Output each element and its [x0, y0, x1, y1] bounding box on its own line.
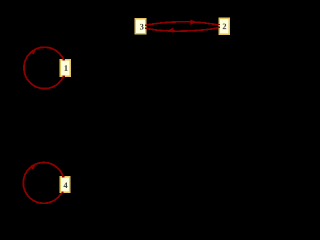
arrowhead of self-loop on node 1 [30, 49, 37, 55]
wire notch: circle 4 over node 4 bottom border [61, 191, 63, 193]
wire notch: circle 1 over node 1 bottom border [63, 75, 65, 77]
wire: edge 2 to 3 (bottom arc) [141, 26, 225, 31]
node 2 [219, 18, 230, 35]
node 4 [59, 176, 70, 193]
wire: self-loop edge on node 1 [24, 47, 65, 88]
arrowhead of edge 2 to 3 [168, 28, 174, 33]
wire notch: circle 4 over node 4 top border [62, 176, 64, 178]
wire notch: bottom arc at node 3 right border [145, 28, 146, 29]
wire notch: circle 1 over node 1 top border [63, 59, 66, 61]
digit 4 [64, 183, 68, 189]
wire: edge 3 to 2 (top arc) [141, 22, 225, 26]
wire notch: top arc at node 2 left border [219, 24, 220, 25]
arrowhead of self-loop on node 4 [30, 164, 36, 170]
digit 3 [140, 24, 144, 30]
digit 1 [65, 65, 68, 71]
digit 2 [223, 24, 226, 30]
wire: self-loop edge on node 4 [23, 163, 64, 204]
node 1 [59, 59, 71, 77]
node 3 [135, 18, 147, 35]
wire notch: top arc at node 3 right border [145, 25, 146, 26]
arrowhead of edge 3 to 2 [190, 19, 196, 25]
wire notch: bottom arc at node 2 left border [219, 27, 220, 28]
